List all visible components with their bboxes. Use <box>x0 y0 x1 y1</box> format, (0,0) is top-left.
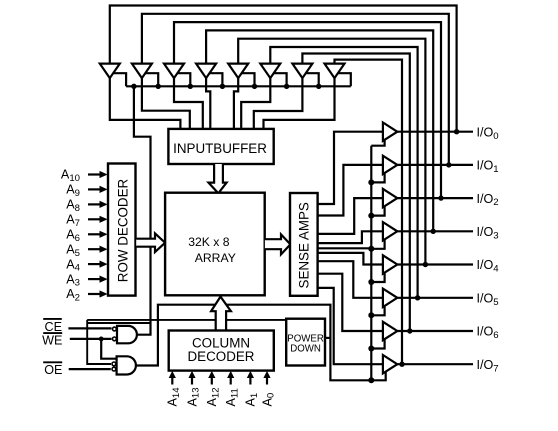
wire enable tap of buffer B6 <box>273 73 286 86</box>
wire enable tap to output buffer D3 <box>371 239 384 249</box>
wire SENSE AMPS output 6 to output buffer D6 <box>318 274 383 331</box>
wire SENSE AMPS output 3 to output buffer D3 <box>318 231 383 243</box>
node rail junction for buffer B3 tap <box>188 84 193 89</box>
node input A12 (arrow into COLUMN DECODER bottom) <box>211 378 213 385</box>
block POWER DOWN <box>286 319 325 366</box>
buffer B3 (write data input buffer, inverted triangle) <box>164 64 184 79</box>
svg-text:WE: WE <box>42 334 62 348</box>
wire SENSE AMPS output 4 to output buffer D4 <box>318 253 383 265</box>
wire I/O1 output line <box>397 164 473 166</box>
node input A14 (arrow into COLUMN DECODER bottom) <box>171 378 173 385</box>
wire I/O5 feedback: I/O5 line up right side, over top to input buffer B6 <box>270 47 417 298</box>
gate G1 (CE/WE AND gate, bubbled inputs) <box>117 326 137 343</box>
wire I/O5 output line <box>397 297 473 299</box>
node input A13 (arrow into COLUMN DECODER bottom) <box>191 378 193 385</box>
node rail junction for buffer B6 tap <box>284 84 289 89</box>
wire I/O7 output line <box>397 363 473 365</box>
node junction dot on I/O0 line <box>454 129 459 134</box>
block INPUTBUFFER <box>168 129 273 164</box>
gate G1 input bubble (CE) <box>113 327 117 331</box>
wire gate G1 output loop (lower horizontal tee) <box>87 320 150 364</box>
arrow INPUTBUFFER to ARRAY (hollow, down) <box>209 164 227 193</box>
buffer B6 (write data input buffer, inverted triangle) <box>260 64 280 79</box>
wire POWER DOWN output joining rail feed <box>325 337 330 339</box>
node junction dot on I/O6 line <box>407 328 412 333</box>
wire I/O0 output line <box>397 131 473 133</box>
wire enable tap to output buffer D5 <box>371 306 384 316</box>
block 32K x 8 ARRAY <box>165 193 265 296</box>
wire CE to gate G1 <box>68 327 111 329</box>
wire SENSE AMPS output 0 to output buffer D0 <box>318 132 383 204</box>
node rail junction for buffer D5 tap <box>368 312 374 318</box>
buffer B2 (write data input buffer, inverted triangle) <box>132 64 152 79</box>
arrow ROW DECODER to ARRAY (hollow, right) <box>136 233 165 252</box>
wire write-enable rail drop to gate G1 output <box>134 86 151 334</box>
buffer D3 (output driver for I/O3) <box>383 222 397 240</box>
wire buffer B6 output to INPUTBUFFER <box>241 77 270 129</box>
wire enable tap to output buffer D1 <box>371 173 384 183</box>
svg-text:ROW DECODER: ROW DECODER <box>116 178 131 282</box>
svg-text:ARRAY: ARRAY <box>195 251 236 265</box>
block ROW DECODER <box>108 164 136 296</box>
wire I/O6 feedback: I/O6 line up right side, over top to input buffer B7 <box>302 54 409 332</box>
node rail junction for buffer D6 tap <box>368 346 374 352</box>
wire buffer B2 output to INPUTBUFFER <box>142 77 190 129</box>
gate G2 input bubble (middle) <box>112 362 116 366</box>
node rail drop junction <box>131 84 136 89</box>
wire I/O3 output line <box>397 230 473 232</box>
node junction dot on I/O3 line <box>431 229 436 234</box>
svg-text:INPUTBUFFER: INPUTBUFFER <box>173 141 267 156</box>
wire SENSE AMPS output 7 to output buffer D7 <box>318 288 383 364</box>
buffer D1 (output driver for I/O1) <box>383 156 397 174</box>
wire WE to gate G1 <box>70 338 112 340</box>
wire enable tap of buffer B2 <box>145 73 158 86</box>
buffer D5 (output driver for I/O5) <box>383 289 397 307</box>
gate G2 (output-enable AND gate, 3 inputs) <box>117 356 136 374</box>
wire buffer B1 output to INPUTBUFFER <box>110 77 181 129</box>
wire enable tap to output buffer D0 <box>371 140 384 146</box>
block COLUMN DECODER <box>169 331 274 371</box>
wire enable tap of buffer B4 <box>209 73 222 86</box>
wire WE branch to gate G2 top input <box>101 339 117 359</box>
node input A0 (arrow into COLUMN DECODER bottom) <box>266 378 268 385</box>
node junction dot on I/O1 line <box>446 162 451 167</box>
wire SENSE AMPS output 5 to output buffer D5 <box>318 261 383 298</box>
wire enable tap of buffer B5 <box>241 73 254 86</box>
wire enable tap to output buffer D4 <box>371 273 384 283</box>
svg-text:DECODER: DECODER <box>188 349 255 364</box>
svg-text:DOWN: DOWN <box>290 344 321 355</box>
node WE branch junction <box>99 337 104 342</box>
svg-text:32K x 8: 32K x 8 <box>188 235 230 249</box>
node rail junction for buffer B5 tap <box>252 84 257 89</box>
wire enable tap to output buffer D6 <box>371 339 384 349</box>
wire buffer B5 output to INPUTBUFFER <box>234 77 238 129</box>
gate G1 input bubble (WE) <box>113 337 117 341</box>
block SENSE AMPS <box>290 193 318 296</box>
wire enable tap to output buffer D2 <box>371 206 384 216</box>
node input A1 (arrow into COLUMN DECODER bottom) <box>249 378 251 385</box>
node rail junction for buffer B7 tap <box>316 84 321 89</box>
wire SENSE AMPS output 1 to output buffer D1 <box>318 165 383 216</box>
wire I/O4 output line <box>397 263 473 265</box>
wire OE to gate G2 <box>69 368 111 370</box>
wire sense-amp edge link to output-enable rail <box>318 247 372 249</box>
gate G2 input bubble (OE) <box>112 367 116 371</box>
buffer D2 (output driver for I/O2) <box>383 189 397 207</box>
node rail junction for buffer D3 tap <box>368 246 374 252</box>
node rail junction for buffer D2 tap <box>368 213 374 219</box>
node junction dot on I/O5 line <box>415 295 420 300</box>
wire enable tap of buffer B1 <box>113 73 126 86</box>
wire I/O1 feedback: I/O1 line up right side, over top to input buffer B2 <box>142 14 449 165</box>
arrow COLUMN DECODER to ARRAY (hollow, up) <box>211 297 231 331</box>
wire buffer B8 output to INPUTBUFFER <box>264 77 335 129</box>
node junction dot on I/O4 line <box>423 262 428 267</box>
wire gate G1 output node to POWER DOWN (upper horizontal) <box>87 319 286 321</box>
wire buffer B3 output to INPUTBUFFER <box>174 77 203 129</box>
wire enable tap of buffer B7 <box>305 73 318 86</box>
node rail end junction at D7 tap feed <box>368 377 374 383</box>
wire buffer B7 output to INPUTBUFFER <box>254 77 303 129</box>
wire write-enable rail (horizontal bus under input buffers) <box>126 85 351 87</box>
buffer B5 (write data input buffer, inverted triangle) <box>228 64 248 79</box>
wire enable tap of buffer B8 <box>338 73 351 86</box>
buffer B8 (write data input buffer, inverted triangle) <box>325 64 345 79</box>
wire I/O2 output line <box>397 197 473 199</box>
node input A11 (arrow into COLUMN DECODER bottom) <box>230 378 232 385</box>
svg-text:CE: CE <box>45 320 63 334</box>
node rail junction for buffer B4 tap <box>220 84 225 89</box>
buffer D0 (output driver for I/O0) <box>383 123 397 141</box>
wire I/O3 feedback: I/O3 line up right side, over top to input buffer B4 <box>206 30 433 231</box>
wire output-enable rail (vertical, left of output buffers) <box>370 146 372 381</box>
wire enable tap of buffer B3 <box>177 73 190 86</box>
wire I/O4 feedback: I/O4 line up right side, over top to input buffer B5 <box>238 39 425 265</box>
arrow ARRAY to SENSE AMPS (hollow, right) <box>265 234 291 254</box>
wire I/O7 feedback: I/O7 line up right side, over top to input buffer B8 <box>335 60 403 365</box>
buffer B7 (write data input buffer, inverted triangle) <box>292 64 312 79</box>
svg-text:OE: OE <box>44 363 62 377</box>
wire buffer B4 output to INPUTBUFFER <box>206 77 210 129</box>
buffer B1 (write data input buffer, inverted triangle) <box>100 64 120 79</box>
node junction dot on I/O2 line <box>438 195 443 200</box>
buffer D4 (output driver for I/O4) <box>383 255 397 273</box>
buffer D6 (output driver for I/O6) <box>383 322 397 340</box>
node junction dot on I/O7 line <box>399 362 404 367</box>
wire SENSE AMPS output 2 to output buffer D2 <box>318 198 383 234</box>
wire gate G2 output to output-enable rail (via top of POWER DOWN) <box>136 305 386 381</box>
buffer D7 (output driver for I/O7) <box>383 355 397 373</box>
node rail junction for buffer D1 tap <box>368 179 374 185</box>
node rail junction for buffer D4 tap <box>368 279 374 285</box>
buffer B4 (write data input buffer, inverted triangle) <box>196 64 216 79</box>
wire I/O6 output line <box>397 330 473 332</box>
wire I/O0 feedback: I/O0 line up right side, over top to input buffer B1 <box>110 6 457 132</box>
wire I/O2 feedback: I/O2 line up right side, over top to input buffer B3 <box>174 22 441 198</box>
svg-text:SENSE AMPS: SENSE AMPS <box>297 202 312 288</box>
node rail junction for buffer B2 tap <box>156 84 161 89</box>
